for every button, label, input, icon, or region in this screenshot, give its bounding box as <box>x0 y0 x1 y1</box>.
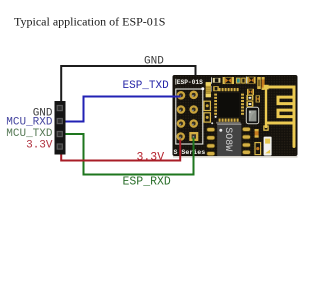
crystal Y1 <box>246 107 258 123</box>
two vertical SMDs below coil <box>204 101 213 124</box>
gray bar below chip <box>216 122 241 124</box>
antenna <box>266 87 294 147</box>
svg-text:MCU_RXD: MCU_RXD <box>6 117 53 129</box>
4-pin header connector J1 <box>55 101 66 155</box>
top row SMD components <box>213 77 265 95</box>
bottom-right small components <box>255 129 272 156</box>
svg-text:MCU_TXD: MCU_TXD <box>6 128 53 140</box>
top pins <box>214 88 244 122</box>
flash chip SO8W <box>207 124 251 156</box>
right pins <box>241 94 244 96</box>
right pins <box>242 127 250 131</box>
ESP-01S module photo <box>173 75 298 158</box>
teal component <box>236 78 241 84</box>
left pins <box>207 127 251 155</box>
silkscreen ESP-01S <box>174 79 177 85</box>
vertical yellow r <box>257 77 261 89</box>
wire 3.3V (red) <box>61 140 180 161</box>
svg-text:SO8W: SO8W <box>222 127 233 151</box>
bowtie cap C1 <box>223 77 234 84</box>
svg-text:Typical application of ESP-01S: Typical application of ESP-01S <box>14 14 165 28</box>
svg-text:ESP_TXD: ESP_TXD <box>123 80 170 92</box>
wire MCU_TXD to ESP_RXD (green) <box>62 134 194 175</box>
row2 small component and silkscreen ticks <box>211 77 247 92</box>
vertical orange <box>262 77 265 90</box>
wire ESP_TXD to MCU_RXD (blue) <box>62 97 181 122</box>
r3 <box>241 78 246 84</box>
wire GND (black) <box>61 66 195 101</box>
r1 <box>213 78 221 83</box>
coil / inductor right of box <box>206 82 211 97</box>
svg-text:ESP_RXD: ESP_RXD <box>123 176 171 189</box>
left pins <box>214 94 217 96</box>
orange X right <box>256 95 260 102</box>
svg-text:S Series: S Series <box>174 149 206 156</box>
square pad pin <box>189 132 198 141</box>
svg-text:ESP-01S: ESP-01S <box>177 79 203 86</box>
ESP8266 chip U1 <box>214 88 244 124</box>
2x4 gold header pins <box>178 92 199 141</box>
bottom pins <box>219 118 221 121</box>
svg-text:3.3V: 3.3V <box>26 140 53 152</box>
svg-text:GND: GND <box>144 55 164 67</box>
white component <box>264 137 272 156</box>
right-mid small caps <box>246 95 260 107</box>
svg-text:3.3V: 3.3V <box>137 151 165 164</box>
stacked bowties right <box>247 77 256 84</box>
white box around header <box>176 89 203 144</box>
PCB body <box>173 75 298 156</box>
